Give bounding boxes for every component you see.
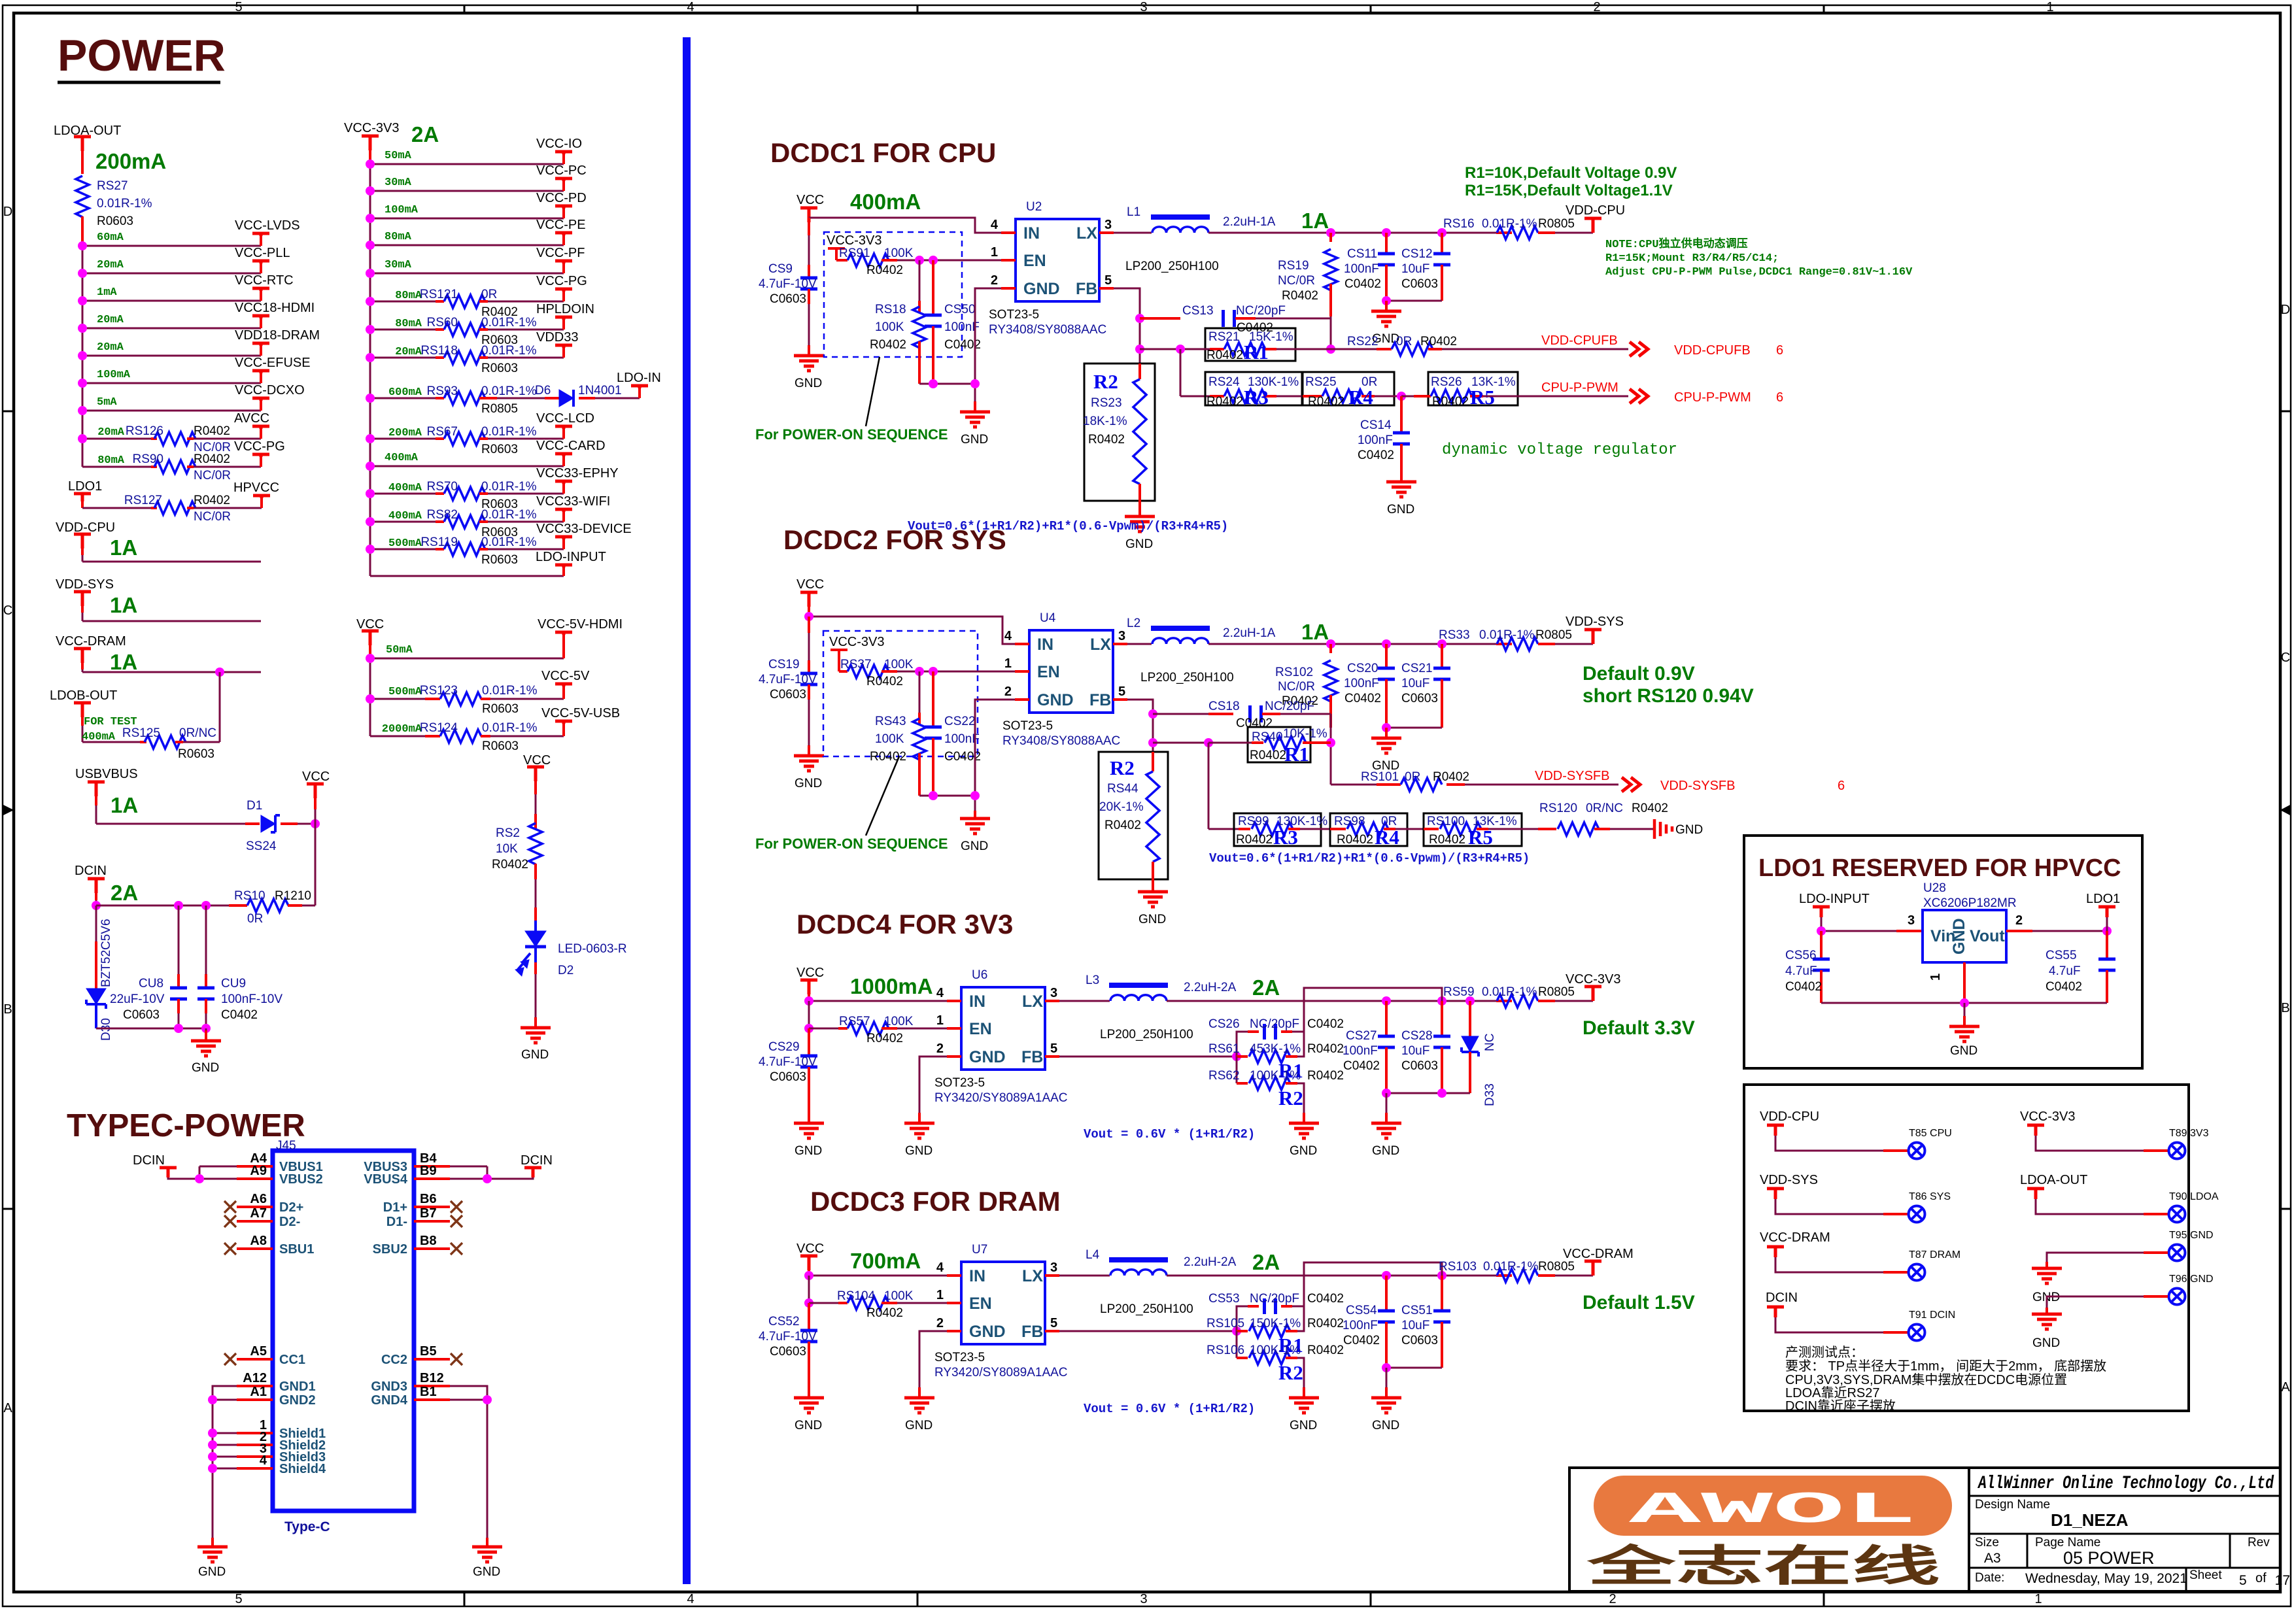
svg-text:1A: 1A (110, 535, 137, 560)
pin 1 Shield1 (237, 1432, 273, 1434)
svg-text:VDD33: VDD33 (536, 330, 578, 345)
power flag VCC-5V (562, 686, 565, 699)
svg-text:CPU-P-PWM: CPU-P-PWM (1674, 390, 1751, 405)
wire VCC-3V3 to T89 (2036, 1136, 2144, 1151)
wire branch to VCC-EFUSE (82, 382, 261, 384)
capacitor CS21 (1441, 644, 1443, 668)
ground GND (CS9) (794, 345, 824, 371)
svg-text:VCC33-DEVICE: VCC33-DEVICE (536, 522, 632, 536)
svg-text:RS33: RS33 (1439, 628, 1470, 642)
wire RS60 out (479, 328, 488, 331)
resistor RS104 (809, 1302, 838, 1304)
svg-text:C0603: C0603 (1401, 692, 1438, 705)
svg-text:T91 DCIN: T91 DCIN (1909, 1310, 1955, 1321)
power flag AVCC (260, 428, 262, 439)
svg-text:17: 17 (2275, 1573, 2290, 1588)
wire LDOB to RS125 (82, 741, 140, 743)
wire LDO bottom rail (1821, 1002, 2107, 1004)
svg-text:R0402: R0402 (1307, 1042, 1344, 1056)
test point T89 3V3 (2169, 1143, 2185, 1159)
node out junction a (1326, 228, 1335, 237)
svg-text:NC/20pF: NC/20pF (1250, 1292, 1299, 1306)
svg-text:Vout: Vout (1970, 927, 2005, 945)
svg-text:C0603: C0603 (770, 688, 806, 702)
svg-text:SBU1: SBU1 (279, 1242, 314, 1257)
wire CPU-P-PWM out (1483, 396, 1628, 398)
op-amp U7 buck converter (961, 1262, 1045, 1344)
port VDD-SYSFB (1622, 777, 1640, 792)
svg-text:R0402: R0402 (1307, 1069, 1344, 1083)
svg-text:80mA: 80mA (97, 454, 125, 467)
svg-text:C0603: C0603 (1401, 1059, 1438, 1073)
svg-text:GND: GND (1138, 913, 1166, 926)
svg-text:4: 4 (991, 218, 999, 232)
svg-text:D2: D2 (558, 964, 573, 977)
svg-text:VCC-PG: VCC-PG (536, 274, 587, 288)
wire L1 to VDD-CPU (1208, 232, 1496, 234)
svg-text:DCDC4 FOR 3V3: DCDC4 FOR 3V3 (796, 909, 1013, 939)
node rail junction a (929, 379, 938, 388)
svg-text:2A: 2A (1252, 975, 1280, 1000)
wire typec right GND bus (450, 1386, 487, 1538)
svg-text:VCC-PLL: VCC-PLL (235, 246, 290, 260)
svg-text:RS19: RS19 (1278, 259, 1309, 273)
wire RS126 out (187, 437, 194, 440)
ground GND (CS29) (794, 1113, 824, 1138)
svg-text:5: 5 (1118, 685, 1125, 699)
resistor RS24 R3 box (1205, 372, 1302, 405)
svg-text:R0603: R0603 (97, 214, 133, 228)
resistor RS124 (440, 730, 481, 743)
capacitor CS54 (1385, 1276, 1388, 1311)
svg-text:R0402: R0402 (1207, 348, 1243, 362)
svg-text:1: 1 (2046, 0, 2053, 14)
svg-text:Design Name: Design Name (1975, 1498, 2050, 1512)
power flag VCC-RTC (260, 290, 262, 301)
svg-text:20mA: 20mA (97, 259, 124, 271)
test point T91 DCIN (1909, 1325, 1925, 1341)
node CS55 junction (2102, 926, 2112, 936)
svg-text:CS56: CS56 (1785, 949, 1817, 962)
svg-text:CS21: CS21 (1401, 662, 1433, 675)
ground GND (led) (521, 1017, 551, 1043)
capacitor CS28 (1441, 1001, 1443, 1036)
svg-text:05 POWER: 05 POWER (2063, 1548, 2155, 1568)
svg-text:B1: B1 (420, 1385, 437, 1399)
svg-text:2A: 2A (1252, 1250, 1280, 1274)
ground GND (U6) (904, 1113, 934, 1138)
svg-text:6: 6 (1838, 779, 1845, 793)
wire VDD-CPU (81, 549, 84, 555)
svg-text:RS119: RS119 (420, 535, 458, 549)
svg-text:R0402: R0402 (1104, 819, 1141, 832)
svg-text:VCC-5V: VCC-5V (541, 669, 590, 683)
svg-text:NC/0R: NC/0R (1278, 680, 1315, 694)
svg-text:L4: L4 (1086, 1248, 1100, 1262)
svg-text:R2: R2 (1093, 370, 1118, 393)
svg-text:VCC: VCC (796, 1242, 824, 1256)
svg-text:30mA: 30mA (385, 259, 412, 271)
svg-text:IN: IN (969, 992, 985, 1011)
svg-text:0.01R-1%: 0.01R-1% (1483, 1260, 1539, 1274)
svg-text:VCC-3V3: VCC-3V3 (1566, 972, 1620, 987)
ground GND (CS19) (794, 745, 824, 771)
wire RS62 leg (1236, 1057, 1238, 1083)
svg-text:AWOL: AWOL (1629, 1485, 1917, 1536)
svg-text:0.01R-1%: 0.01R-1% (481, 535, 537, 549)
svg-text:C0603: C0603 (770, 1345, 806, 1359)
svg-text:GND: GND (1372, 1419, 1399, 1432)
pin B4 VBUS3 (414, 1165, 450, 1168)
svg-text:GND: GND (198, 1565, 226, 1579)
svg-text:CS52: CS52 (768, 1315, 800, 1328)
ground GND (RS106) (1289, 1387, 1319, 1413)
svg-text:0.01R-1%: 0.01R-1% (1479, 628, 1535, 642)
svg-text:C0402: C0402 (1358, 448, 1394, 462)
wire branch RS67 (370, 438, 436, 440)
test point T86 SYS (1909, 1206, 1925, 1223)
node VCC-D1 junction (311, 819, 320, 828)
node EN junction b (dcdc2) (929, 667, 938, 676)
capacitor CS56 (1820, 931, 1823, 959)
resistor RS90 (154, 460, 196, 473)
wire sense vertical (dcdc3) (1297, 1306, 1304, 1331)
wire branch to VCC-PF (370, 273, 564, 275)
pin 4 Shield4 (237, 1467, 273, 1470)
svg-text:453K-1%: 453K-1% (1250, 1042, 1301, 1056)
svg-text:3: 3 (1118, 629, 1125, 643)
svg-text:LDO-INPUT: LDO-INPUT (1799, 892, 1870, 906)
svg-text:0R: 0R (481, 288, 497, 301)
svg-text:RS10: RS10 (234, 889, 265, 903)
svg-text:SOT23-5: SOT23-5 (989, 308, 1039, 322)
node rail junction a (dcdc2) (929, 791, 938, 800)
wire branch to VCC-PC (370, 190, 564, 192)
svg-text:80mA: 80mA (395, 318, 422, 330)
svg-text:VCC-5V-HDMI: VCC-5V-HDMI (538, 617, 623, 632)
power flag VCC-LCD (562, 428, 565, 439)
svg-text:RS22: RS22 (1347, 335, 1378, 348)
node FB junction b (dcdc2) (1148, 738, 1157, 747)
wire branch to VCC-RTC (82, 300, 261, 302)
svg-text:2: 2 (991, 273, 998, 288)
svg-text:R0402: R0402 (1307, 1317, 1344, 1330)
ground GND (T96) (2032, 1308, 2062, 1329)
zener diode D30 BZT52C5V6 (95, 905, 97, 941)
svg-text:Date:: Date: (1975, 1571, 2004, 1585)
wire R3 row feed (1180, 349, 1182, 396)
svg-text:C0402: C0402 (1307, 1017, 1344, 1031)
svg-text:CS51: CS51 (1401, 1304, 1433, 1317)
wire RS2 to LED (534, 864, 537, 879)
svg-text:LDOA靠近RS27: LDOA靠近RS27 (1785, 1385, 1880, 1400)
svg-text:VCC-IO: VCC-IO (536, 137, 582, 151)
svg-text:R2: R2 (1278, 1087, 1303, 1109)
svg-text:FB: FB (1021, 1048, 1043, 1066)
svg-text:RS37: RS37 (840, 658, 872, 671)
svg-text:U6: U6 (972, 968, 987, 982)
svg-text:R0603: R0603 (482, 739, 519, 753)
wire RS127 to HPVCC (187, 507, 194, 509)
wire GND pin rail (dcdc1) (975, 288, 1001, 401)
svg-text:2: 2 (1593, 0, 1600, 14)
svg-text:2.2uH-2A: 2.2uH-2A (1184, 981, 1237, 994)
svg-text:R0402: R0402 (870, 750, 906, 764)
svg-text:R0402: R0402 (194, 424, 230, 438)
wire U28 GND pin (1963, 962, 1966, 1003)
svg-text:100nF: 100nF (1358, 433, 1393, 447)
svg-text:Default 1.5V: Default 1.5V (1583, 1292, 1695, 1313)
svg-text:of: of (2255, 1571, 2267, 1585)
svg-text:VCC: VCC (302, 770, 330, 784)
svg-text:NC/20pF: NC/20pF (1250, 1017, 1299, 1031)
svg-text:VDD-CPU: VDD-CPU (1760, 1109, 1819, 1124)
svg-text:C0402: C0402 (1343, 1334, 1380, 1347)
svg-text:RS125: RS125 (122, 726, 160, 740)
wire VCC-3V3 bus (369, 150, 371, 164)
wire zener-cap bottom rail (96, 1028, 206, 1030)
power flag LDO-IN (638, 387, 641, 398)
svg-text:RS70: RS70 (426, 480, 458, 494)
test point T90 LDOA (2169, 1206, 2185, 1223)
svg-text:C0402: C0402 (1343, 1059, 1380, 1073)
wire VDD-SYS (81, 606, 84, 613)
svg-text:VCC: VCC (796, 193, 824, 207)
svg-text:RS62: RS62 (1208, 1069, 1240, 1083)
svg-text:1N4001: 1N4001 (578, 384, 622, 398)
svg-text:GND: GND (1372, 1144, 1399, 1158)
ground GND (dcin rail) (205, 1028, 207, 1041)
resistor RS26 R5 box (1428, 372, 1518, 405)
svg-text:J45: J45 (276, 1139, 296, 1153)
pin A4 VBUS1 (237, 1165, 273, 1168)
capacitor CS26 (1237, 1032, 1248, 1057)
wire DCIN left to VBUS pins (168, 1177, 237, 1179)
svg-text:RS60: RS60 (426, 316, 458, 330)
svg-text:Type-C: Type-C (284, 1519, 330, 1534)
svg-text:0R: 0R (1396, 335, 1412, 348)
svg-text:1000mA: 1000mA (850, 974, 933, 998)
svg-text:R1: R1 (1244, 341, 1269, 364)
wire RS124 out (481, 735, 490, 737)
resistor RS21 R1 box (1205, 328, 1295, 361)
svg-text:1: 1 (1928, 973, 1943, 981)
svg-text:100K-1%: 100K-1% (1250, 1069, 1301, 1083)
svg-text:0.01R-1%: 0.01R-1% (1482, 217, 1537, 231)
svg-text:22uF-10V: 22uF-10V (110, 992, 165, 1006)
port CPU-P-PWM (1630, 389, 1648, 403)
svg-text:R0805: R0805 (1538, 1260, 1575, 1274)
wire branch RS70 (370, 493, 436, 495)
power flag VCC-PG (562, 290, 565, 301)
power flag VCC-CARD (562, 455, 565, 466)
wire branch to VCC-IO (370, 163, 564, 165)
svg-text:R0402: R0402 (1250, 749, 1286, 762)
svg-text:4: 4 (1004, 629, 1012, 643)
wire to GND (ldo) (1964, 1003, 1966, 1026)
svg-text:VCC: VCC (796, 966, 824, 980)
wire RS37 to EN (882, 670, 897, 673)
svg-text:CS55: CS55 (2046, 949, 2077, 962)
svg-text:VCC33-EPHY: VCC33-EPHY (536, 466, 619, 481)
node rail junction b (970, 379, 980, 388)
node VCC junction (dcdc3) (804, 1271, 813, 1280)
svg-text:18K-1%: 18K-1% (1083, 414, 1127, 428)
pin B6 D1+ (414, 1206, 450, 1208)
wire branch RS93 (370, 398, 436, 399)
svg-text:R1=15K;Mount R3/R4/R5/C14;: R1=15K;Mount R3/R4/R5/C14; (1605, 252, 1779, 265)
svg-text:SBU2: SBU2 (373, 1242, 407, 1257)
ground GND (U28) (1949, 1016, 1979, 1041)
svg-text:RY3420/SY8089A1AAC: RY3420/SY8089A1AAC (934, 1091, 1068, 1105)
svg-text:100nF: 100nF (1343, 1319, 1378, 1332)
svg-text:RS43: RS43 (875, 715, 906, 728)
svg-text:DCDC2 FOR SYS: DCDC2 FOR SYS (783, 524, 1006, 555)
svg-text:GND: GND (2032, 1336, 2060, 1350)
svg-text:RS104: RS104 (837, 1289, 876, 1303)
svg-text:3: 3 (1104, 218, 1112, 232)
svg-text:A6: A6 (250, 1192, 267, 1206)
svg-text:RS82: RS82 (426, 508, 458, 522)
svg-text:1: 1 (991, 245, 998, 260)
svg-text:CS11: CS11 (1347, 247, 1377, 261)
node EN junction b (929, 256, 938, 265)
svg-text:RS123: RS123 (420, 684, 458, 698)
svg-text:L3: L3 (1086, 973, 1099, 987)
svg-text:R2: R2 (1110, 756, 1135, 779)
svg-text:NC/0R: NC/0R (194, 510, 231, 524)
svg-text:C0402: C0402 (1344, 277, 1381, 291)
svg-text:GND: GND (1675, 823, 1703, 837)
pin A9 VBUS2 (237, 1177, 273, 1180)
svg-text:GND: GND (1037, 691, 1074, 709)
node out junction c (dcdc2) (1437, 639, 1447, 649)
wire branch RS124 (370, 736, 425, 737)
svg-text:RS90: RS90 (132, 452, 163, 466)
wire branch RS123 (370, 698, 425, 700)
svg-text:T89 3V3: T89 3V3 (2169, 1128, 2209, 1139)
resistor RS59 (1496, 1000, 1512, 1002)
svg-text:A12: A12 (243, 1371, 267, 1385)
no-connect X marks left (224, 1201, 236, 1213)
svg-text:B12: B12 (420, 1371, 444, 1385)
pin 3 Shield3 (237, 1455, 273, 1458)
capacitor CS55 (2106, 931, 2108, 959)
node rail junction b (dcdc4) (1437, 1089, 1447, 1098)
svg-text:1: 1 (2034, 1592, 2042, 1606)
svg-text:Sheet: Sheet (2189, 1568, 2222, 1582)
resistor RS82 (444, 515, 485, 528)
pin A1 GND2 (237, 1398, 273, 1401)
svg-text:R0402: R0402 (1207, 395, 1243, 409)
svg-text:GND: GND (1950, 1044, 1977, 1058)
svg-text:FB: FB (1021, 1323, 1043, 1341)
svg-text:Vout = 0.6V * (1+R1/R2): Vout = 0.6V * (1+R1/R2) (1084, 1127, 1255, 1142)
svg-text:R0402: R0402 (1433, 770, 1469, 784)
wire RS106 to GND (1303, 1373, 1305, 1398)
svg-text:VDD-CPUFB: VDD-CPUFB (1541, 333, 1618, 348)
wire D6 to LDO-IN (579, 397, 595, 399)
svg-text:XC6206P182MR: XC6206P182MR (1923, 896, 2017, 910)
svg-text:A5: A5 (250, 1344, 267, 1359)
svg-text:CPU-P-PWM: CPU-P-PWM (1541, 381, 1618, 395)
svg-text:R0402: R0402 (1282, 289, 1318, 303)
wire branch VCC-CARD (370, 465, 564, 467)
power flag HPVCC (260, 497, 263, 508)
svg-text:VCC-PC: VCC-PC (536, 163, 587, 178)
capacitor CS9 (808, 218, 810, 235)
svg-text:Default 3.3V: Default 3.3V (1583, 1017, 1695, 1039)
svg-text:20mA: 20mA (97, 314, 124, 326)
pin B12 GND3 (414, 1385, 450, 1387)
svg-text:CS9: CS9 (768, 262, 793, 276)
svg-text:DCIN靠近座子摆放: DCIN靠近座子摆放 (1785, 1398, 1896, 1413)
svg-text:VDD-SYSFB: VDD-SYSFB (1535, 769, 1609, 783)
svg-text:SS24: SS24 (246, 839, 277, 853)
resistor RS100 R5 box (1424, 813, 1522, 846)
capacitor CS18 (1153, 713, 1208, 715)
capacitor CS29 (808, 1028, 810, 1056)
svg-text:R0402: R0402 (1236, 833, 1273, 847)
resistor RS98 R4 box (1330, 813, 1407, 846)
svg-text:R3: R3 (1273, 826, 1298, 849)
svg-text:RS23: RS23 (1091, 396, 1122, 410)
svg-text:R0402: R0402 (1429, 833, 1465, 847)
svg-text:CS28: CS28 (1401, 1029, 1433, 1043)
wire branch RS126 (82, 438, 151, 440)
svg-text:5: 5 (1104, 273, 1112, 288)
svg-text:GND: GND (905, 1144, 933, 1158)
resistor RS16 (1496, 231, 1512, 234)
svg-text:CS50: CS50 (944, 303, 976, 316)
svg-text:4.7uF-10V: 4.7uF-10V (759, 1055, 817, 1069)
resistor RS19 (1329, 233, 1332, 242)
svg-text:DCDC1 FOR CPU: DCDC1 FOR CPU (770, 137, 996, 168)
resistor RS10 (247, 899, 288, 912)
svg-text:CS14: CS14 (1360, 418, 1392, 432)
svg-text:4.7uF-10V: 4.7uF-10V (759, 1330, 817, 1344)
svg-text:T86 SYS: T86 SYS (1909, 1191, 1951, 1202)
wire branch RS90 (82, 466, 151, 468)
node out junction c (dcdc4) (1465, 996, 1475, 1006)
svg-text:R0402: R0402 (866, 1032, 903, 1045)
wire branch to VCC-LVDS (82, 245, 261, 247)
svg-text:VDD-CPU: VDD-CPU (1566, 203, 1625, 218)
svg-text:5: 5 (1050, 1041, 1057, 1056)
svg-text:3: 3 (1140, 0, 1147, 14)
svg-text:R0603: R0603 (178, 747, 214, 761)
svg-text:GND: GND (961, 433, 988, 447)
wire VCC to IN (dcdc2) (808, 607, 810, 617)
svg-text:B7: B7 (420, 1206, 437, 1221)
svg-text:C0402: C0402 (1307, 1292, 1344, 1306)
svg-text:CS13: CS13 (1182, 304, 1214, 318)
svg-text:RY3408/SY8088AAC: RY3408/SY8088AAC (989, 323, 1106, 337)
svg-text:100nF: 100nF (1343, 1044, 1378, 1058)
wire R3 row feed (dcdc2) (1208, 743, 1210, 829)
svg-text:Shield4: Shield4 (279, 1462, 326, 1476)
svg-text:4: 4 (936, 986, 944, 1000)
svg-text:RS121: RS121 (420, 288, 458, 301)
node out junction b (dcdc2) (1382, 639, 1391, 649)
svg-text:CC2: CC2 (381, 1353, 407, 1367)
ground GND (CS52) (794, 1387, 824, 1413)
svg-text:GND: GND (1023, 280, 1060, 298)
ground GND (U7) (904, 1387, 934, 1413)
svg-text:100mA: 100mA (385, 204, 419, 216)
diode D1 SS24 (261, 815, 280, 832)
svg-text:Wednesday, May 19, 2021: Wednesday, May 19, 2021 (2025, 1571, 2187, 1586)
